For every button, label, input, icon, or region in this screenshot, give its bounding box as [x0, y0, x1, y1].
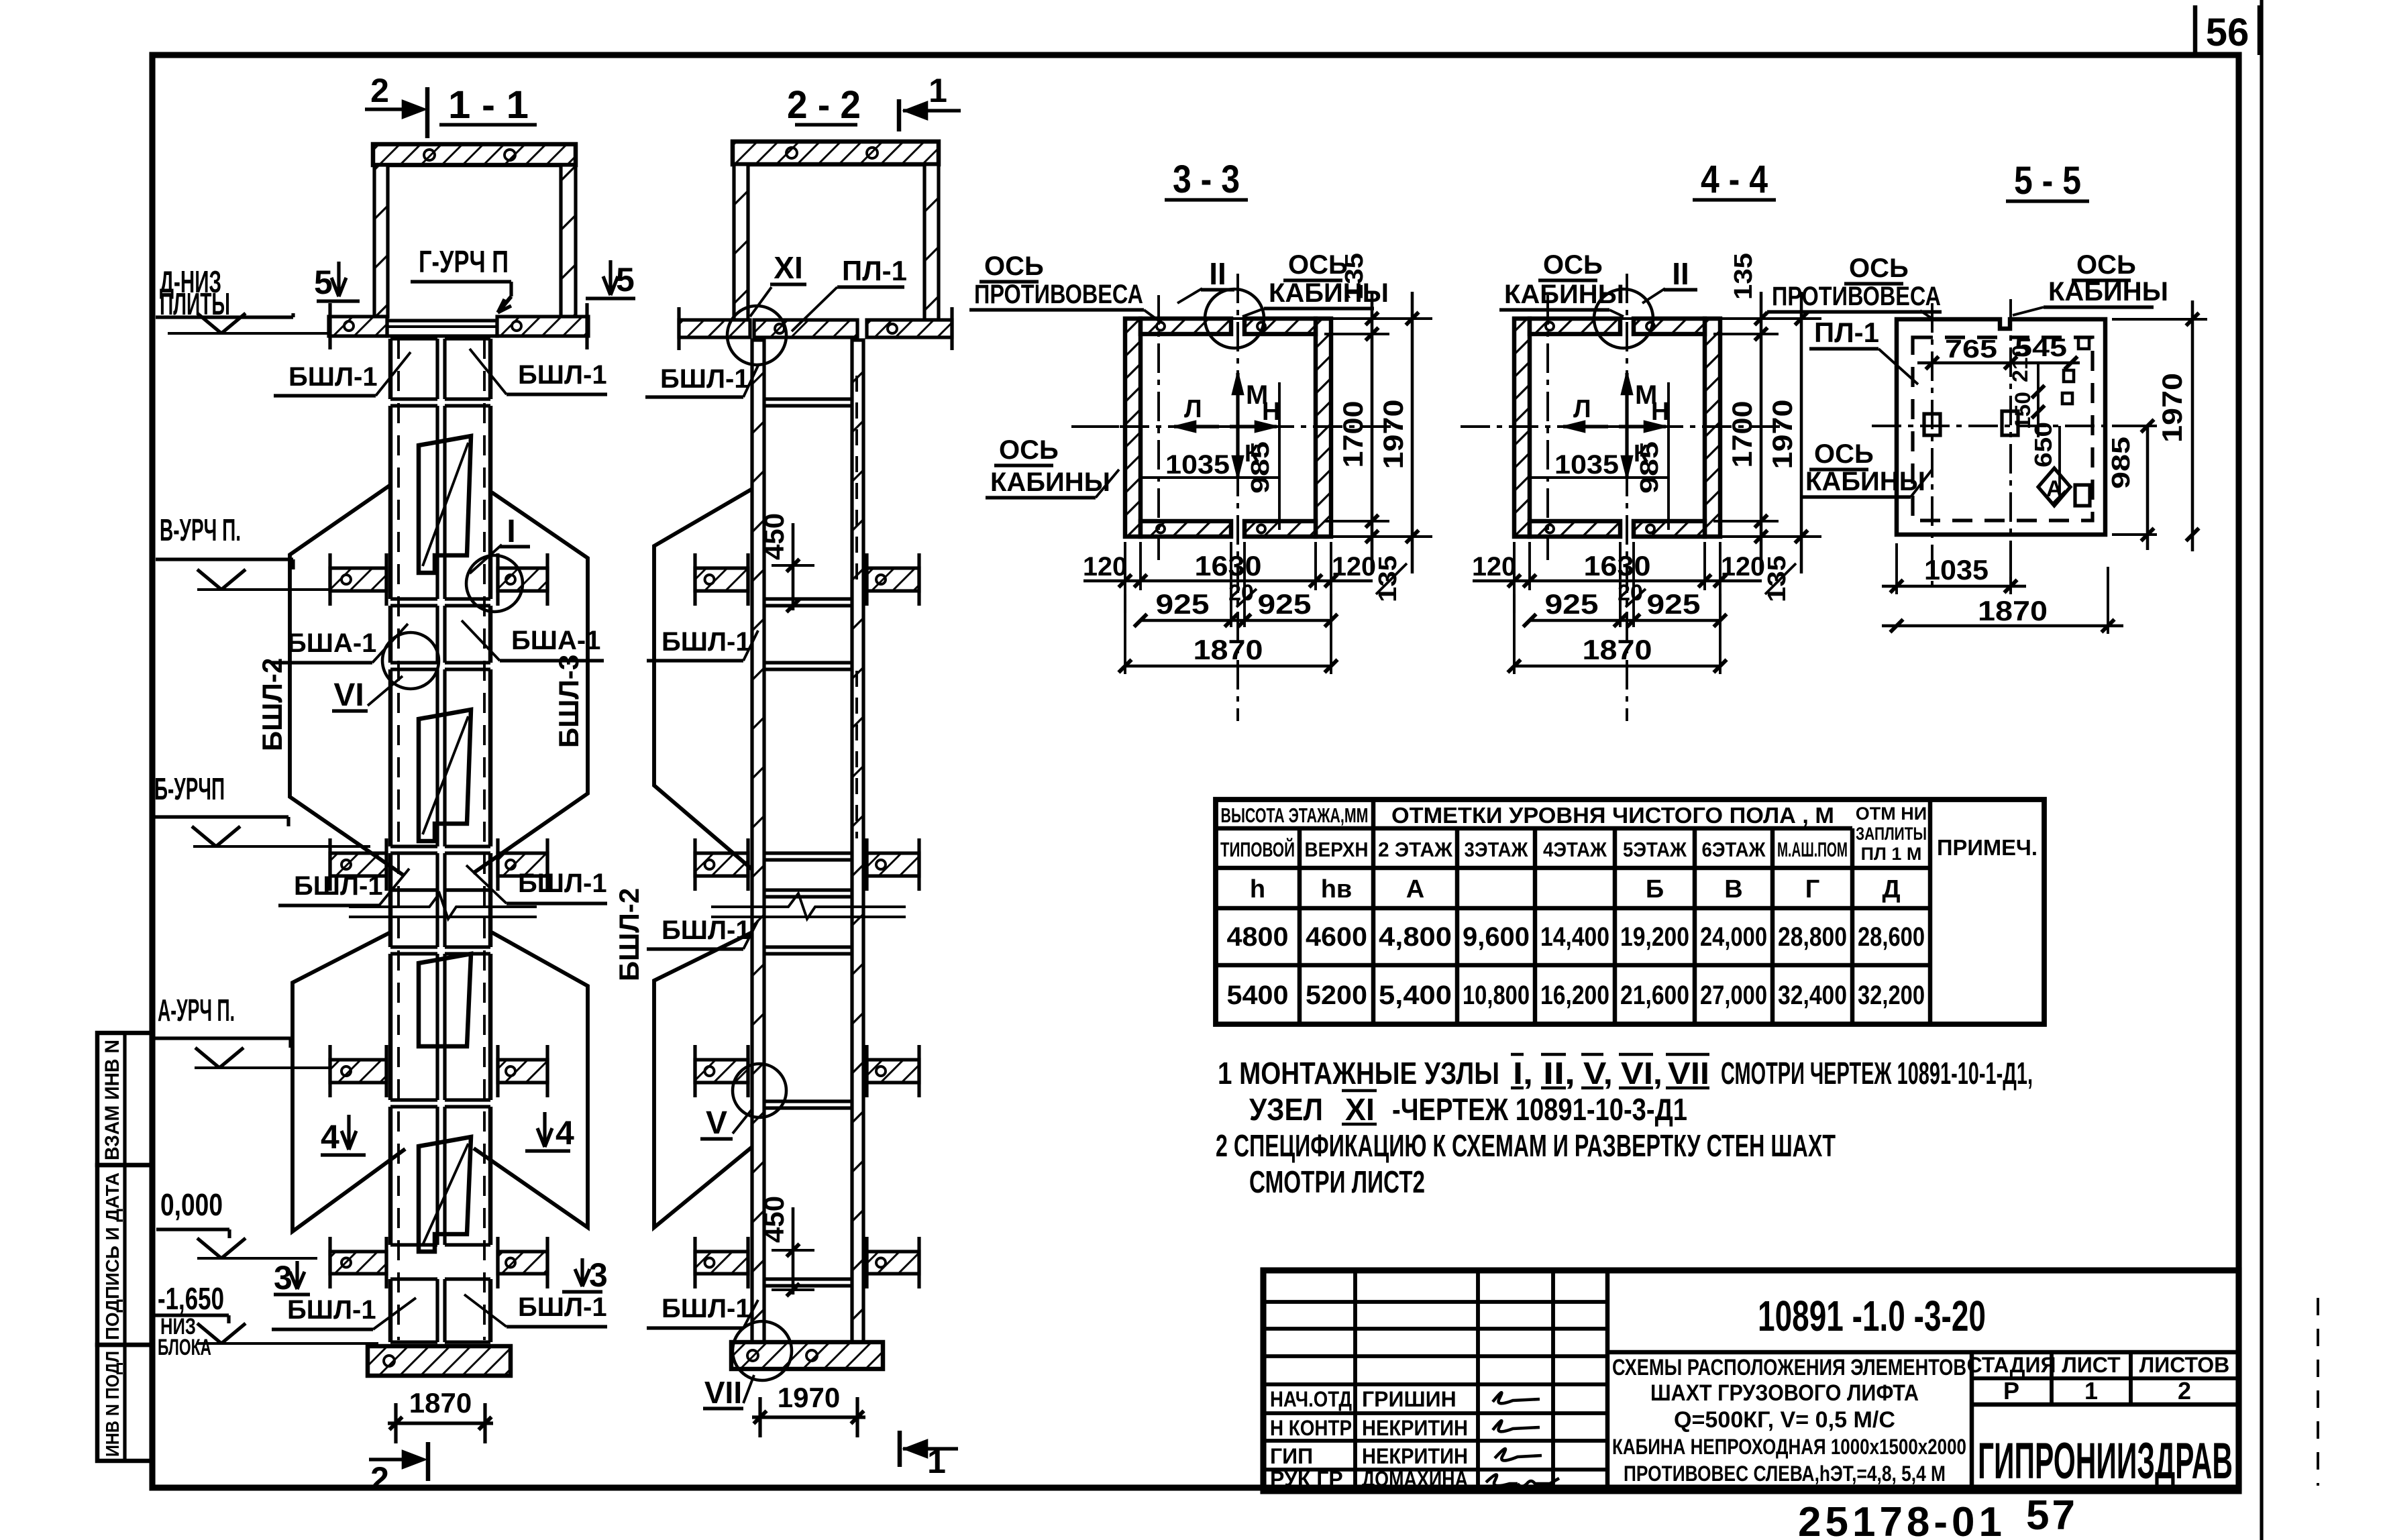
1-1 door storey 4 [419, 1137, 471, 1252]
svg-text:10891 -1.0 -3-20: 10891 -1.0 -3-20 [1758, 1292, 1986, 1340]
svg-text:19,200: 19,200 [1620, 922, 1689, 952]
svg-text:Д: Д [1882, 875, 1900, 903]
svg-text:СМОТРИ ЛИСТ2: СМОТРИ ЛИСТ2 [1249, 1164, 1425, 1199]
svg-text:Н: Н [1651, 398, 1669, 426]
svg-text:ТИПОВОЙ: ТИПОВОЙ [1220, 837, 1295, 861]
svg-text:БШЛ-1: БШЛ-1 [518, 360, 607, 390]
svg-text:VI: VI [333, 677, 364, 713]
svg-text:120: 120 [1083, 552, 1127, 582]
svg-text:1: 1 [927, 1443, 946, 1480]
svg-text:-ЧЕРТЕЖ 10891-10-3-Д1: -ЧЕРТЕЖ 10891-10-3-Д1 [1392, 1092, 1687, 1127]
svg-text:ПРОТИВОВЕС СЛЕВА,hЭТ,=4,8, 5,4: ПРОТИВОВЕС СЛЕВА,hЭТ,=4,8, 5,4 М [1624, 1462, 1946, 1486]
svg-text:9,600: 9,600 [1463, 922, 1530, 952]
svg-text:4800: 4800 [1227, 922, 1289, 952]
svg-text:ПРОТИВОВЕСА: ПРОТИВОВЕСА [1772, 282, 1941, 311]
svg-text:БШЛ-1: БШЛ-1 [294, 871, 383, 901]
section cut mark 2 (bottom) [369, 1457, 423, 1461]
1-1 panel bracket polygon lower left [293, 932, 405, 1231]
svg-text:5: 5 [314, 264, 333, 301]
svg-text:1870: 1870 [1194, 634, 1263, 665]
1-1 machine floor slab over shaft [387, 321, 497, 336]
svg-text:14,400: 14,400 [1540, 922, 1609, 952]
svg-text:1870: 1870 [1978, 595, 2048, 626]
svg-text:ПОДПИСЬ И ДАТА: ПОДПИСЬ И ДАТА [102, 1172, 123, 1340]
svg-text:I: I [507, 514, 515, 549]
svg-text:ШАХТ ГРУЗОВОГО ЛИФТА: ШАХТ ГРУЗОВОГО ЛИФТА [1650, 1380, 1919, 1406]
svg-text:135: 135 [1763, 555, 1791, 602]
svg-text:5: 5 [616, 261, 635, 298]
svg-text:II: II [1672, 256, 1689, 291]
2-2 floor slab bars level 0.000 [695, 1237, 748, 1288]
svg-text:ОСЬ: ОСЬ [1849, 254, 1909, 283]
5-5 inner dashed outline [1913, 337, 2093, 520]
svg-text:985: 985 [2107, 437, 2135, 489]
svg-text:М.АШ.ПОМ: М.АШ.ПОМ [1777, 838, 1848, 861]
svg-text:1 - 1: 1 - 1 [448, 83, 529, 127]
1-1 lintel row middle joints y1272-1327 [388, 853, 393, 890]
3-3 dim chain 925-20-925 [1141, 619, 1331, 622]
svg-text:4: 4 [321, 1118, 339, 1156]
2-2 interior panel joints [764, 397, 852, 400]
svg-text:ГИП: ГИП [1270, 1444, 1313, 1468]
floor levels table [1216, 800, 2044, 1024]
svg-text:ДОМАХИНА: ДОМАХИНА [1362, 1467, 1468, 1491]
svg-text:2 СПЕЦИФИКАЦИЮ К СХЕМАМ: 2 СПЕЦИФИКАЦИЮ К СХЕМАМ И РАЗВЕРТКУ СТЕН… [1216, 1128, 1836, 1163]
svg-text:Р: Р [2003, 1377, 2019, 1405]
svg-text:3 - 3: 3 - 3 [1173, 158, 1240, 201]
svg-text:1970: 1970 [1766, 400, 1798, 470]
svg-text:3ЭТАЖ: 3ЭТАЖ [1465, 838, 1529, 861]
svg-text:БШЛ-2: БШЛ-2 [613, 888, 645, 981]
svg-text:Н: Н [1262, 398, 1280, 426]
3-3 cabin axis horizontal [1071, 425, 1401, 428]
svg-text:Л: Л [1573, 395, 1591, 423]
1-1 bottom dimension 1870 [388, 1421, 493, 1425]
svg-text:5ЭТАЖ: 5ЭТАЖ [1623, 838, 1687, 861]
svg-text:Б: Б [1646, 875, 1664, 903]
svg-text:450: 450 [758, 513, 790, 560]
svg-text:ОСЬ: ОСЬ [2076, 250, 2136, 280]
svg-text:57: 57 [2026, 1492, 2078, 1539]
2-2 machine room roof slab [733, 142, 939, 164]
svg-text:БШЛ-3: БШЛ-3 [553, 655, 584, 748]
svg-text:16,200: 16,200 [1540, 981, 1609, 1010]
svg-text:КАБИНЫ: КАБИНЫ [990, 467, 1110, 497]
4-4 cabin axis vertical [1626, 274, 1628, 721]
svg-text:4: 4 [555, 1114, 574, 1152]
svg-text:Л: Л [1184, 395, 1202, 423]
3-3 node II circle [1205, 289, 1264, 348]
signatures squiggles [1493, 1392, 1540, 1403]
1-1 floor slab bars level 0.000 [330, 1237, 386, 1288]
svg-text:925: 925 [1545, 588, 1599, 620]
svg-text:2 - 2: 2 - 2 [787, 83, 861, 127]
5-5 counterweight axis [1931, 303, 1934, 590]
svg-text:ПЛ 1 М: ПЛ 1 М [1861, 844, 1922, 864]
svg-text:БШЛ-2: БШЛ-2 [256, 658, 288, 751]
svg-text:ГИПРОНИИЗДРАВ: ГИПРОНИИЗДРАВ [1978, 1433, 2233, 1490]
title block frame [1263, 1270, 2239, 1491]
svg-text:6ЭТАЖ: 6ЭТАЖ [1702, 838, 1766, 861]
2-2 shaft right wall [852, 340, 863, 1342]
3-3 bottom dim chain 120-1630-120 [1124, 542, 1126, 613]
svg-text:985: 985 [1247, 441, 1275, 494]
2-2 bottom dimension 1970 [752, 1415, 865, 1419]
svg-text:В-УРЧ П.: В-УРЧ П. [160, 512, 241, 547]
svg-text:hв: hв [1321, 875, 1353, 903]
svg-text:VI,: VI, [1621, 1056, 1662, 1091]
svg-text:XI: XI [1345, 1092, 1375, 1127]
4-4 node II circle [1594, 289, 1653, 348]
svg-text:НЕКРИТИН: НЕКРИТИН [1362, 1416, 1468, 1440]
2-2 floor slab bars level V [695, 553, 748, 606]
svg-text:-1,650: -1,650 [158, 1281, 224, 1316]
1-1 shaft wall dashed inner lines [397, 339, 400, 1340]
svg-text:БШЛ-1: БШЛ-1 [518, 1292, 607, 1322]
2-2 machine room right wall [924, 164, 939, 320]
svg-text:ОТМЕТКИ УРОВНЯ ЧИСТОГО ПОЛА: ОТМЕТКИ УРОВНЯ ЧИСТОГО ПОЛА , М [1391, 803, 1834, 828]
svg-text:5400: 5400 [1227, 981, 1289, 1010]
svg-text:А-УРЧ П.: А-УРЧ П. [158, 993, 235, 1028]
svg-text:21,600: 21,600 [1620, 981, 1689, 1010]
svg-text:925: 925 [1647, 588, 1701, 620]
svg-text:Г: Г [1805, 875, 1820, 903]
3-3 shaft walls plan [1125, 319, 1141, 537]
svg-text:XI: XI [774, 250, 802, 285]
2-2 panel bracket polygon upper left [654, 489, 752, 869]
page number box 56 top right [2193, 5, 2198, 55]
title block left grid [1263, 1270, 1607, 1491]
svg-text:ПРИМЕЧ.: ПРИМЕЧ. [1937, 835, 2037, 860]
svg-text:25178-01: 25178-01 [1798, 1499, 2006, 1540]
svg-text:120: 120 [1472, 552, 1516, 582]
1-1 break line [349, 893, 537, 919]
svg-text:Н КОНТР: Н КОНТР [1270, 1416, 1352, 1440]
svg-text:2: 2 [2178, 1377, 2191, 1405]
svg-text:32,400: 32,400 [1778, 981, 1847, 1010]
svg-text:10,800: 10,800 [1463, 981, 1530, 1010]
svg-text:210: 210 [2008, 345, 2032, 382]
3-3 dim 1035 / 985 inside [1141, 476, 1279, 479]
svg-text:0,000: 0,000 [160, 1187, 223, 1222]
svg-text:1: 1 [2084, 1377, 2098, 1405]
2-2 machine room left wall [734, 164, 748, 320]
5-5 rail brackets [1924, 414, 1940, 435]
svg-text:450: 450 [758, 1196, 790, 1243]
1-1 shaft wall panels [388, 339, 393, 399]
svg-text:1970: 1970 [2156, 373, 2188, 443]
svg-text:650: 650 [2029, 422, 2057, 467]
svg-text:А: А [1406, 875, 1424, 903]
5-5 slab outline [1897, 319, 2105, 535]
4-4 cabin axis horizontal [1461, 425, 1791, 428]
svg-text:1970: 1970 [778, 1382, 840, 1413]
svg-text:120: 120 [1721, 552, 1765, 582]
svg-text:II: II [1209, 256, 1226, 291]
svg-text:2: 2 [370, 1460, 389, 1498]
svg-text:ОСЬ: ОСЬ [1814, 439, 1874, 469]
1-1 machine room right wall [561, 165, 576, 317]
svg-text:1035: 1035 [1165, 450, 1230, 480]
section cut mark 1 (bottom) [898, 1431, 902, 1467]
svg-text:985: 985 [1636, 441, 1664, 494]
svg-text:КАБИНЫ: КАБИНЫ [1805, 467, 1925, 496]
2-2 break line [711, 893, 906, 919]
svg-text:СХЕМЫ РАСПОЛОЖЕНИЯ ЭЛЕМЕНТОВ: СХЕМЫ РАСПОЛОЖЕНИЯ ЭЛЕМЕНТОВ [1612, 1355, 1966, 1380]
1-1 floor slab bars level B [330, 838, 386, 891]
1-1 panel bracket polygon upper right [473, 492, 588, 873]
svg-text:ОТМ НИ: ОТМ НИ [1856, 804, 1927, 824]
svg-text:1700: 1700 [1726, 401, 1758, 468]
4-4 bottom dim chain 120-1630-120 [1513, 542, 1516, 613]
svg-text:h: h [1250, 875, 1265, 903]
svg-text:В: В [1724, 875, 1742, 903]
3-3 cabin axis vertical [1236, 274, 1239, 721]
2-2 panel bracket polygon lower left [654, 932, 752, 1227]
svg-text:БШЛ-1: БШЛ-1 [288, 362, 378, 392]
svg-text:КАБИНЫ: КАБИНЫ [1269, 278, 1389, 308]
svg-text:ПРОТИВОВЕСА: ПРОТИВОВЕСА [974, 280, 1143, 309]
svg-text:СМОТРИ ЧЕРТЕЖ 10891-10-1-Д1,: СМОТРИ ЧЕРТЕЖ 10891-10-1-Д1, [1721, 1056, 2033, 1091]
2-2 machine floor slab PL-1 [754, 320, 857, 337]
svg-text:2 ЭТАЖ: 2 ЭТАЖ [1378, 838, 1453, 861]
svg-text:1630: 1630 [1584, 550, 1651, 582]
svg-text:ПЛ-1: ПЛ-1 [1814, 317, 1879, 348]
1-1 foundation block [368, 1346, 511, 1376]
4-4 dim chain 925-20-925 [1530, 619, 1720, 622]
svg-text:1870: 1870 [409, 1387, 472, 1419]
2-2 machine floor slab left [679, 320, 750, 337]
svg-text:ОСЬ: ОСЬ [1288, 250, 1348, 280]
3-3 dim 1870 total [1125, 665, 1331, 668]
left attachment boxes [97, 1033, 152, 1165]
svg-text:4ЭТАЖ: 4ЭТАЖ [1543, 838, 1607, 861]
svg-text:II,: II, [1543, 1056, 1575, 1091]
svg-text:1700: 1700 [1337, 401, 1369, 468]
svg-text:ВЫСОТА ЭТАЖА,ММ: ВЫСОТА ЭТАЖА,ММ [1221, 804, 1369, 827]
svg-text:1035: 1035 [1554, 450, 1619, 480]
svg-text:3: 3 [589, 1256, 608, 1294]
1-1 door storey 2 [419, 710, 471, 841]
1-1 machine floor slab left [329, 317, 387, 336]
4-4 counterweight axis [1546, 295, 1549, 560]
4-4 axis arrows M L N K [1625, 373, 1628, 427]
svg-text:V: V [706, 1105, 727, 1141]
svg-text:1970: 1970 [1377, 400, 1409, 470]
4-4 shaft walls plan [1514, 319, 1530, 537]
svg-text:БШЛ-1: БШЛ-1 [661, 1294, 751, 1323]
svg-text:56: 56 [2206, 11, 2249, 54]
svg-text:НАЧ.ОТД: НАЧ.ОТД [1270, 1387, 1352, 1411]
1-1 floor slab bars level A [330, 1045, 386, 1097]
svg-text:5200: 5200 [1306, 981, 1367, 1010]
sheet outer edge line right [2260, 0, 2263, 1540]
svg-text:ОСЬ: ОСЬ [984, 252, 1044, 281]
svg-text:Г-УРЧ П: Г-УРЧ П [419, 244, 509, 279]
svg-text:Б-УРЧП: Б-УРЧП [154, 771, 225, 806]
4-4 vertical dims 135/1700/135 and 1970 [1521, 317, 1821, 320]
1-1 machine room left wall [374, 165, 388, 317]
svg-text:2: 2 [370, 72, 389, 109]
4-4 dim 1870 total [1514, 665, 1720, 668]
5-5 diamond A mark [2038, 468, 2070, 506]
svg-text:БША-1: БША-1 [287, 628, 376, 658]
svg-text:32,200: 32,200 [1858, 981, 1925, 1010]
svg-text:120: 120 [1332, 552, 1376, 582]
svg-text:4600: 4600 [1306, 922, 1367, 952]
svg-text:4 - 4: 4 - 4 [1701, 158, 1768, 201]
3-3 counterweight axis [1157, 295, 1160, 560]
svg-text:27,000: 27,000 [1700, 981, 1767, 1010]
svg-text:РУК ГР: РУК ГР [1270, 1467, 1343, 1491]
svg-text:925: 925 [1258, 588, 1312, 620]
svg-text:БШЛ-1: БШЛ-1 [287, 1295, 376, 1325]
section cut mark 1 (top) [897, 99, 902, 131]
svg-text:БЛОКА: БЛОКА [158, 1335, 211, 1360]
svg-text:ГРИШИН: ГРИШИН [1362, 1387, 1457, 1411]
svg-text:1: 1 [929, 72, 947, 109]
svg-text:БШЛ-1: БШЛ-1 [661, 627, 751, 657]
svg-text:5 - 5: 5 - 5 [2014, 159, 2081, 203]
1-1 machine floor slab right [497, 317, 588, 336]
1-1 panel bracket polygon upper left [290, 485, 405, 876]
3-3 vertical dims 135/1700/135 and 1970 [1132, 317, 1432, 320]
svg-text:925: 925 [1156, 588, 1210, 620]
3-3 axis arrows M L N K [1236, 373, 1239, 427]
1-1 floor slab bars level V [330, 553, 386, 606]
dashed line right of title block [2317, 1298, 2319, 1486]
svg-text:УЗЕЛ: УЗЕЛ [1249, 1092, 1323, 1127]
1-1 panel bracket polygon lower right [474, 932, 588, 1227]
2-2 shaft left wall [752, 340, 764, 1342]
5-5 cabin axis horizontal [1872, 425, 2157, 427]
svg-text:ВЕРХН: ВЕРХН [1305, 838, 1369, 861]
svg-text:ВЗАМ ИНВ N: ВЗАМ ИНВ N [101, 1040, 123, 1160]
svg-text:Q=500КГ, V= 0,5 М/С: Q=500КГ, V= 0,5 М/С [1674, 1407, 1895, 1433]
1-1 door storey 1 [419, 436, 471, 573]
svg-text:ПЛ-1: ПЛ-1 [842, 255, 907, 286]
svg-text:3: 3 [274, 1259, 293, 1297]
svg-text:ЛИСТ: ЛИСТ [2062, 1353, 2121, 1377]
svg-text:135: 135 [1730, 253, 1758, 300]
svg-text:765: 765 [1945, 335, 1997, 364]
5-5 cabin axis vertical [2009, 299, 2012, 590]
svg-text:28,800: 28,800 [1778, 922, 1847, 952]
svg-text:БШЛ-1: БШЛ-1 [518, 869, 607, 898]
1-1 machine room roof slab [373, 144, 576, 165]
svg-text:ИНВ N ПОДЛ: ИНВ N ПОДЛ [102, 1351, 123, 1457]
2-2 floor slab bars level A [695, 1045, 748, 1097]
svg-text:135: 135 [1374, 555, 1402, 602]
svg-text:ОСЬ: ОСЬ [1543, 250, 1603, 280]
2-2 floor slab bars level B [695, 838, 748, 891]
svg-text:VII: VII [704, 1375, 742, 1410]
svg-text:1035: 1035 [1924, 554, 1989, 586]
svg-text:СТАДИЯ: СТАДИЯ [1967, 1353, 2056, 1377]
svg-text:А: А [2046, 476, 2063, 502]
svg-text:1870: 1870 [1583, 634, 1652, 665]
svg-text:5,400: 5,400 [1379, 981, 1452, 1010]
svg-text:24,000: 24,000 [1700, 922, 1767, 952]
svg-text:28,600: 28,600 [1858, 922, 1925, 952]
svg-text:I,: I, [1513, 1056, 1533, 1091]
2-2 machine floor slab right [867, 320, 952, 337]
svg-text:КАБИНЫ: КАБИНЫ [2048, 277, 2168, 307]
svg-text:КАБИНЫ: КАБИНЫ [1504, 280, 1624, 309]
svg-text:1630: 1630 [1195, 550, 1262, 582]
svg-text:V,: V, [1583, 1056, 1613, 1091]
svg-text:БШЛ-1: БШЛ-1 [660, 364, 749, 394]
svg-text:КАБИНА НЕПРОХОДНАЯ 1000х1500х2: КАБИНА НЕПРОХОДНАЯ 1000х1500х2000 [1612, 1435, 1966, 1459]
svg-text:ОСЬ: ОСЬ [999, 435, 1059, 465]
svg-text:ЛИСТОВ: ЛИСТОВ [2139, 1353, 2230, 1377]
svg-text:НЕКРИТИН: НЕКРИТИН [1362, 1444, 1468, 1468]
2-2 foundation block [731, 1342, 883, 1369]
svg-text:VII: VII [1668, 1056, 1709, 1091]
svg-text:ЗАПЛИТЫ: ЗАПЛИТЫ [1856, 824, 1927, 844]
svg-text:1 МОНТАЖНЫЕ УЗЛЫ: 1 МОНТАЖНЫЕ УЗЛЫ [1218, 1056, 1499, 1091]
1-1 door storey 3 (crossed by break) [419, 954, 471, 1046]
svg-text:4,800: 4,800 [1379, 922, 1452, 952]
4-4 dim 1035 / 985 inside [1530, 476, 1669, 479]
title block right structure [1607, 1350, 2239, 1355]
